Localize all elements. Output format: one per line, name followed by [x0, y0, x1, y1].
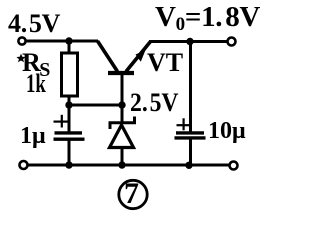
- zener diode VD lead top: [121, 105, 124, 124]
- label 4.5V input voltage: [8, 9, 60, 39]
- node C1 ground junction: [65, 161, 72, 168]
- terminal input top-left: [18, 37, 25, 44]
- wire ground rail: [27, 164, 230, 167]
- node input junction at resistor top: [65, 37, 72, 44]
- base lead: [121, 75, 124, 107]
- resistor RS body: [62, 53, 78, 96]
- zener diode cathode bar with tabs: [110, 117, 135, 130]
- figure number circle 7: [119, 180, 147, 208]
- node base junction right: [118, 101, 125, 108]
- label capacitor value 10u: [208, 118, 246, 145]
- wire output branch down to capacitor C2: [189, 42, 192, 132]
- label resistor value 1k: [26, 69, 46, 99]
- capacitor C2 plates: [176, 131, 204, 134]
- capacitor C2 lead bottom: [189, 139, 192, 166]
- wire top-left from input terminal to transistor collector: [25, 40, 98, 43]
- resistor star marker: [16, 54, 25, 63]
- collector lead: [98, 41, 118, 72]
- node C2 ground junction: [185, 162, 192, 169]
- label resistor RS: [22, 48, 50, 82]
- terminal output top-right: [228, 38, 236, 46]
- base bar: [108, 71, 134, 75]
- wire base node horizontal: [69, 104, 122, 107]
- emitter lead: [126, 42, 151, 72]
- wire top-right from emitter to output terminal: [149, 40, 231, 43]
- capacitor C1 plates: [55, 131, 83, 134]
- transistor Q1 VT (NPN pass transistor): [98, 41, 151, 106]
- label zener voltage 2.5V: [130, 88, 178, 118]
- node output junction: [186, 38, 193, 45]
- capacitor C1 plus sign: [54, 115, 68, 128]
- node zener ground junction: [118, 161, 125, 168]
- capacitor C1 lead bottom: [68, 140, 71, 165]
- zener diode anode triangle: [110, 125, 134, 148]
- label transistor VT: [147, 48, 183, 78]
- terminal ground bottom-left: [20, 161, 28, 169]
- emitter arrow: [136, 50, 146, 62]
- capacitor C2 plus sign: [177, 118, 190, 130]
- terminal ground bottom-right: [230, 162, 238, 170]
- node base junction left: [65, 101, 72, 108]
- zener diode lead bottom: [121, 148, 124, 166]
- label capacitor value 1u: [20, 123, 46, 150]
- label V0=1.8V output voltage: [155, 1, 260, 36]
- resistor RS leads: [68, 41, 71, 106]
- label figure number 7: [124, 177, 139, 211]
- capacitor C1 1u lead top: [68, 105, 71, 132]
